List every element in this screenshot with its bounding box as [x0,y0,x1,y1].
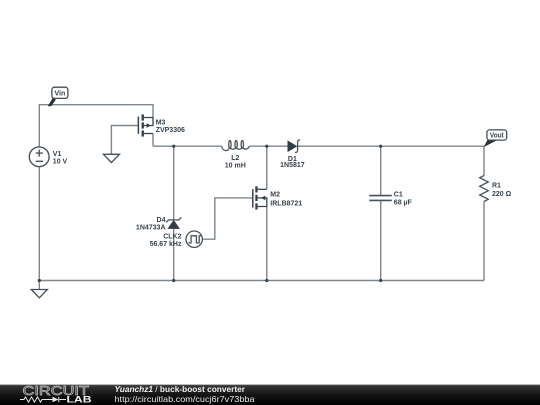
inductor L2 [222,141,250,151]
svg-text:C1: C1 [394,192,403,199]
wire V1 bottom to ground rail [38,167,40,281]
svg-text:M2: M2 [270,191,280,198]
diode D1 (schottky) [288,140,300,152]
wire bottom ground rail [39,280,484,282]
wire mid rail left segment [153,145,222,147]
wire D4 anode to bottom rail [173,228,175,280]
svg-text:R1: R1 [492,183,501,190]
svg-text:Vin: Vin [55,90,66,97]
net flag Vout [483,130,506,147]
footer bar [0,385,540,405]
resistor R1 [480,176,489,202]
capacitor C1 [369,196,392,201]
wire M3 drain down to mid rail [152,134,154,147]
svg-text:56.67 kHz: 56.67 kHz [150,241,182,248]
ground near M3 gate [103,154,119,162]
ground bottom-left [31,290,47,298]
svg-text:L2: L2 [231,155,239,162]
svg-text:Vout: Vout [490,132,504,139]
svg-text:LAB: LAB [67,394,92,405]
wire M2 source down to bottom rail [266,207,268,281]
wire top rail from V1 to M3 source [39,105,153,147]
svg-text:Yuanchz1 / buck-boost converte: Yuanchz1 / buck-boost converter [115,384,246,394]
svg-text:10 mH: 10 mH [225,163,246,170]
svg-text:D4: D4 [157,217,166,224]
svg-text:http://circuitlab.com/cucj6r7v: http://circuitlab.com/cucj6r7v73bba [115,394,255,404]
wire mid rail from D1 to Vout corner [298,145,484,147]
junction node at mid rail / M2 drain [265,145,268,148]
wire node to D4 cathode [173,146,175,220]
junction node at mid rail / C1 [379,145,382,148]
clock source CLK2 [186,231,202,247]
wire M2 drain up to mid rail [266,146,268,189]
svg-text:V1: V1 [53,151,62,158]
junction node bottom rail / C1 [379,279,382,282]
svg-text:1N5817: 1N5817 [280,162,305,169]
svg-text:IRLB8721: IRLB8721 [270,200,302,207]
svg-text:1N4733A: 1N4733A [136,225,166,232]
svg-text:ZVP3306: ZVP3306 [156,127,185,134]
junction node bottom rail / M2 [265,279,268,282]
svg-text:M3: M3 [156,120,166,127]
footer logo doodle wire+resistor+diode [20,397,66,402]
svg-text:220 Ω: 220 Ω [492,191,512,198]
svg-text:68 µF: 68 µF [394,200,413,207]
wire Vout corner down to R1 top [483,146,485,175]
voltage source V1 [29,147,49,167]
wire R1 bottom to rail [483,202,485,281]
junction node bottom rail / V1 [38,279,41,282]
wire M3 gate to ground [111,126,138,155]
junction node at mid rail / D4 [172,145,175,148]
wire C1 top [380,146,382,195]
wire CLK2 to M2 gate [202,198,252,239]
wire bottom-left ground stub [38,281,40,290]
zener diode D4 [166,217,181,228]
wire mid rail between L2 and D1 [249,145,288,147]
mosfet M3 (PMOS) [138,114,153,136]
junction node bottom rail / D4 [172,279,175,282]
svg-text:10 V: 10 V [53,159,68,166]
footer logo diode triangle [53,397,59,403]
svg-text:CLK2: CLK2 [163,234,181,241]
mosfet M2 (NMOS) [253,186,267,209]
wire C1 bottom to rail [380,200,382,280]
net flag Vin [48,87,68,106]
